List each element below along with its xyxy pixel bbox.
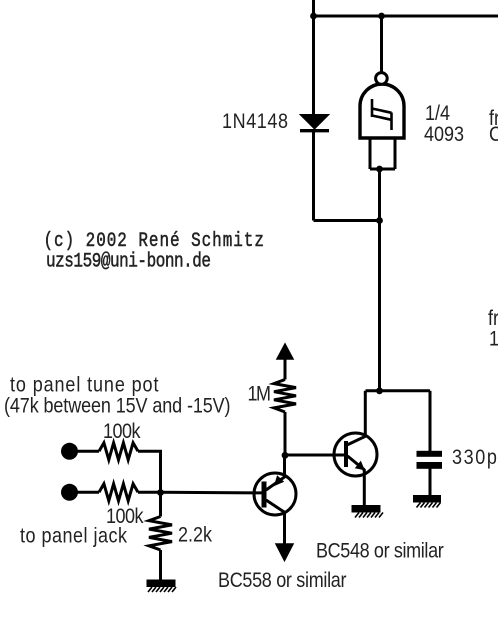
svg-text:BC558 or similar: BC558 or similar <box>218 569 347 593</box>
wire diode branch upper <box>312 16 315 115</box>
svg-text:uzs159@uni-bonn.de: uzs159@uni-bonn.de <box>46 250 211 273</box>
wire NAND output to rail <box>380 16 383 73</box>
power arrow +V (above 1M) <box>277 344 293 359</box>
NAND output bubble <box>376 73 388 85</box>
wire diode branch to NAND input node <box>314 219 380 222</box>
resistor 100k (top) <box>99 443 138 460</box>
wire collector top horizontal <box>366 389 431 392</box>
svg-text:to panel jack: to panel jack <box>20 524 128 548</box>
transistor Q1 BC558 (PNP) <box>254 455 296 515</box>
wire capacitor bottom lead <box>429 468 432 496</box>
wire input row2 to resistor <box>77 491 99 494</box>
svg-text:4093: 4093 <box>424 123 464 147</box>
capacitor 330p <box>417 451 443 469</box>
wire capacitor top lead <box>429 391 432 452</box>
NAND hysteresis symbol <box>372 99 392 130</box>
diode 1N4148 <box>300 115 329 131</box>
op-amp U1 : NAND gate 1/4 4093 body <box>360 84 404 138</box>
wire diode branch lower <box>312 131 315 221</box>
node junction dot 100k/2.2k <box>157 489 164 496</box>
wire row2 resistor to PNP base <box>138 491 262 495</box>
svg-text:330p: 330p <box>452 446 498 470</box>
svg-text:(47k between 15V and -15V): (47k between 15V and -15V) <box>4 394 230 418</box>
wire input row1 to resistor <box>77 450 99 453</box>
node junction dot top-left <box>310 13 317 20</box>
svg-text:BC548 or similar: BC548 or similar <box>316 539 444 563</box>
node junction dot collector rail <box>376 387 383 394</box>
svg-text:1: 1 <box>489 327 498 351</box>
node junction dot NAND inputs <box>376 166 383 173</box>
transistor Q2 BC548 (NPN) <box>334 391 377 476</box>
NAND input box <box>370 138 395 169</box>
resistor 1M <box>274 380 296 413</box>
wire 2.2k top lead <box>159 493 162 517</box>
ground (below 2.2k) <box>147 580 177 593</box>
wire 2.2k bottom lead <box>159 550 162 580</box>
wire 1M arrow stem <box>284 356 287 380</box>
wire row1 resistor to corner and down <box>138 451 161 492</box>
terminal dot pot input <box>61 443 78 460</box>
wire NAND inputs to transistor area <box>378 169 381 391</box>
svg-text:100k: 100k <box>103 420 141 444</box>
resistor 100k (bottom) <box>99 484 138 501</box>
ground (below NPN emitter) <box>352 505 384 518</box>
node junction dot 1M/base <box>282 452 289 459</box>
wire PNP collector down <box>283 512 286 544</box>
power arrow -V (below PNP) <box>276 544 293 561</box>
node junction dot diode/NAND <box>376 217 383 224</box>
svg-text:C: C <box>489 123 498 147</box>
node junction dot top NAND <box>378 13 385 20</box>
resistor 2.2k <box>149 517 172 551</box>
svg-text:1M: 1M <box>248 382 270 406</box>
svg-text:2.2k: 2.2k <box>178 523 212 547</box>
wire top horizontal rail <box>314 15 498 18</box>
wire NPN emitter down <box>363 469 366 506</box>
terminal dot jack input <box>61 484 78 501</box>
wire node to NPN base <box>285 454 344 457</box>
wire 1M bottom lead to node <box>284 412 287 455</box>
ground (below capacitor) <box>413 495 441 508</box>
svg-text:1N4148: 1N4148 <box>222 110 289 134</box>
wire top entry vertical <box>312 0 315 16</box>
